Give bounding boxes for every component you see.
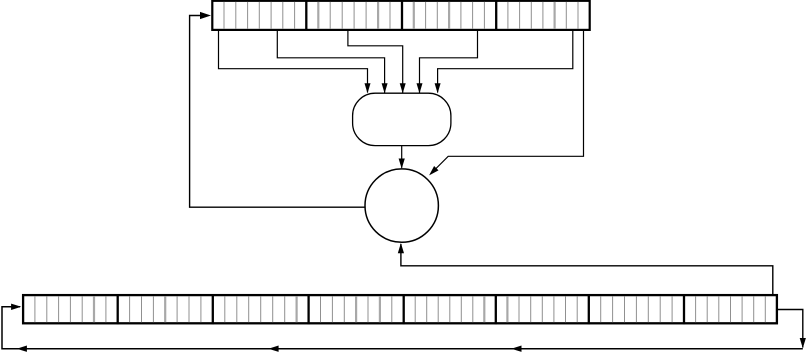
bottom feedback wire	[2, 304, 803, 349]
direction arrow on bottom wire (left)	[17, 346, 27, 352]
direction arrow on bottom wire (middle)	[268, 346, 278, 352]
wire R2 tap to adder	[398, 243, 773, 294]
tap wire T4	[417, 31, 478, 94]
register R2 (bottom shift register)	[23, 295, 777, 323]
register R2 cell dividers	[35, 296, 765, 322]
feedback wire adder to R1	[190, 12, 366, 207]
register R1 (top shift register)	[212, 1, 589, 30]
tap wire T3	[348, 31, 406, 94]
register R1 cell dividers	[224, 2, 578, 29]
tap wire T2	[277, 31, 387, 94]
register R1 word boundaries	[306, 0, 496, 31]
tap wire T5	[435, 31, 573, 94]
function box F (rounded)	[353, 93, 451, 145]
direction arrow on bottom wire (right)	[511, 346, 521, 352]
register R2 word boundaries	[118, 294, 684, 324]
tap wire T6 (diagonal into adder)	[429, 31, 583, 176]
tap wire T1	[219, 31, 371, 94]
wire R2 output right	[778, 310, 806, 349]
wire F to adder	[399, 146, 405, 169]
adder node (circle)	[365, 169, 438, 242]
